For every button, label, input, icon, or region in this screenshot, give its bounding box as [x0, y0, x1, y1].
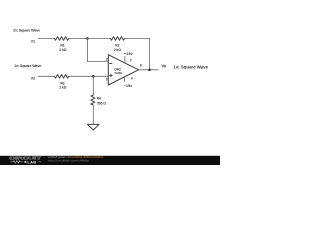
pin 7 power stub [124, 56, 126, 63]
svg-text:2 kΩ: 2 kΩ [59, 48, 67, 52]
svg-text:+15v: +15v [124, 52, 134, 56]
wire R3 to non-inverting input through node B [69, 75, 109, 77]
svg-text:V1: V1 [31, 39, 35, 43]
svg-text:CIRCUIT: CIRCUIT [9, 156, 41, 161]
svg-text:R1: R1 [60, 43, 64, 47]
resistor R1 [55, 37, 69, 41]
wire V1 to R1 [39, 37, 55, 39]
output wire pin 6 [139, 69, 159, 71]
resistor R4 [91, 95, 95, 105]
op-amp plus sign (non-inverting input) [110, 74, 113, 77]
svg-text:LAB: LAB [27, 160, 36, 165]
svg-text:1v; Square Wave: 1v; Square Wave [173, 65, 208, 70]
svg-text:2: 2 [106, 58, 108, 62]
svg-text:R4: R4 [97, 96, 101, 100]
junction node B [92, 75, 95, 78]
footer black bar [0, 156, 220, 165]
svg-text:500 Ω: 500 Ω [97, 102, 106, 106]
svg-text:3: 3 [106, 78, 108, 82]
pin 4 power stub [124, 77, 126, 81]
svg-text:http://circuitlab.com/c44bbp: http://circuitlab.com/c44bbp [48, 158, 90, 162]
ground [88, 124, 100, 130]
wire R4 to ground [92, 105, 94, 124]
wire V2 to R3 [38, 75, 55, 77]
wire node A down to inverting input [87, 38, 108, 61]
svg-text:R3: R3 [60, 81, 64, 85]
svg-text:2 kΩ: 2 kΩ [59, 86, 67, 90]
svg-text:TL081: TL081 [114, 71, 122, 75]
svg-text:Vo: Vo [161, 63, 166, 68]
op-amp minus sign (inverting input) [110, 63, 112, 65]
svg-text:6: 6 [140, 64, 142, 68]
svg-text:2v; Square Wave: 2v; Square Wave [13, 29, 40, 33]
svg-text:7: 7 [130, 59, 132, 63]
CircuitLab logo arrow [24, 161, 27, 164]
svg-text:4: 4 [131, 76, 133, 80]
svg-text:−15v: −15v [124, 84, 133, 88]
svg-text:1v; Square Wave: 1v; Square Wave [14, 64, 41, 68]
resistor R2 [111, 37, 125, 41]
wire R1 to R2 through node A [69, 37, 111, 39]
svg-text:R2: R2 [115, 43, 119, 47]
resistor R3 [55, 75, 69, 79]
svg-text:2 kΩ: 2 kΩ [114, 48, 122, 52]
CircuitLab logo zigzag [10, 161, 22, 164]
junction output node [148, 68, 151, 71]
svg-text:V2: V2 [31, 77, 35, 81]
CircuitLab logo trailing dash [38, 161, 41, 163]
junction node A [86, 37, 89, 40]
wire R2 to output node [125, 38, 150, 69]
wire node B down to R4 [92, 76, 94, 95]
op-amp OA2 triangle body [108, 55, 138, 85]
